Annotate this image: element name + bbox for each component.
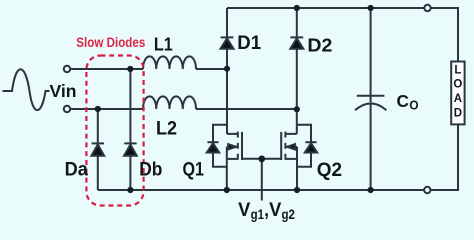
terminal: output - xyxy=(424,187,430,193)
svg-text:L: L xyxy=(454,64,461,76)
junction: Q2 source on bottom rail xyxy=(294,187,300,193)
wire: L1 to node A xyxy=(196,68,227,70)
junction: D2 cathode on top rail xyxy=(294,5,300,11)
wire: top input terminal to L1 xyxy=(70,68,143,70)
svg-text:Vin: Vin xyxy=(50,81,77,101)
svg-text:g2: g2 xyxy=(282,206,296,222)
svg-text:O: O xyxy=(453,79,462,91)
body diode of Q1 xyxy=(207,125,227,167)
svg-text:Da: Da xyxy=(65,160,89,181)
slow diode Da xyxy=(91,143,104,155)
svg-text:C: C xyxy=(397,91,410,111)
svg-text:Q1: Q1 xyxy=(183,160,205,181)
wire: gate bus Q1-Q2 xyxy=(242,158,281,160)
svg-text:A: A xyxy=(454,93,462,105)
wire: bottom output rail (-) xyxy=(98,124,458,190)
body diode of Q2 xyxy=(297,125,317,167)
diode D1 xyxy=(221,37,234,48)
terminal: Vin bottom xyxy=(64,106,70,112)
wire: slow diode Db branch xyxy=(129,69,131,190)
capacitor Co xyxy=(355,8,386,190)
junction: gate bus node xyxy=(258,156,265,163)
wire: bottom input terminal to L2 xyxy=(70,108,143,110)
svg-text:Q2: Q2 xyxy=(317,160,342,181)
svg-text:D1: D1 xyxy=(237,32,261,54)
transistor Q2 (MOSFET) xyxy=(281,132,297,190)
svg-text:Db: Db xyxy=(139,160,162,181)
label Co xyxy=(397,91,419,113)
load (output resistor box) xyxy=(451,62,464,125)
AC source Vin sine symbol xyxy=(3,69,50,110)
junction: Db anode on bottom rail xyxy=(127,187,133,193)
svg-text:g1: g1 xyxy=(251,206,265,222)
transistor Q1 (MOSFET) xyxy=(227,132,242,190)
junction: Co top on top rail xyxy=(368,5,374,11)
wire: top output rail (+) xyxy=(227,8,458,62)
wire: D2 branch / Q2 drain line xyxy=(296,8,298,134)
svg-text:O: O xyxy=(409,98,418,113)
label Vg1,Vg2 xyxy=(238,199,295,222)
wire: gate drive line to Vg1,Vg2 xyxy=(261,159,263,201)
wire: D1 branch / Q1 drain line xyxy=(226,8,228,134)
wire: L2 to node B xyxy=(196,108,297,110)
junction: Co bottom on bottom rail xyxy=(368,187,374,193)
svg-text:V: V xyxy=(269,199,281,221)
diode D2 xyxy=(290,37,303,48)
terminal: output + xyxy=(424,5,430,11)
svg-text:Slow Diodes: Slow Diodes xyxy=(76,35,145,51)
junction: Q1 source on bottom rail xyxy=(224,187,230,193)
inductor L2 xyxy=(143,96,196,109)
svg-text:L2: L2 xyxy=(156,118,177,140)
svg-text:V: V xyxy=(238,199,250,221)
junction: Db top on input line 1 xyxy=(127,66,133,72)
junction: Da top on input line 2 xyxy=(95,106,101,112)
svg-text:D2: D2 xyxy=(307,35,332,56)
slow diodes highlight box (red dashed) xyxy=(86,56,143,206)
svg-text:L1: L1 xyxy=(154,33,173,54)
terminal: Vin top xyxy=(64,66,70,72)
wire: slow diode Da branch xyxy=(97,109,99,190)
slow diode Db xyxy=(124,143,137,155)
inductor L1 xyxy=(143,56,196,69)
node B: L2 / D2 / Q2 drain xyxy=(294,106,300,112)
svg-text:D: D xyxy=(454,108,462,120)
node A: L1 / D1 / Q1 drain xyxy=(224,66,230,72)
